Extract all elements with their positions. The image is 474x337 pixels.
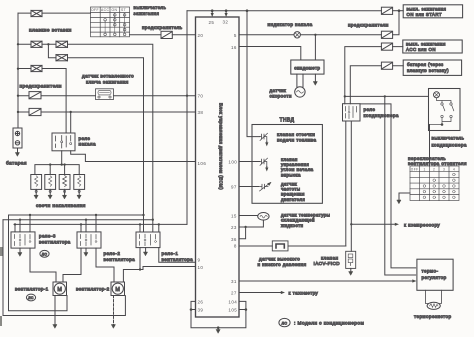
svg-text:клапан: клапан	[321, 255, 338, 260]
sensor: coolant temperature	[258, 213, 269, 221]
node: rail drop junctions relay-3	[14, 214, 31, 226]
svg-text:и низкого давления: и низкого давления	[258, 262, 307, 267]
wire: ON rail branch down to fuse FB	[393, 11, 399, 35]
valve: IACV-FICD	[346, 251, 356, 268]
wire: heater fan switch to ground	[399, 193, 410, 200]
glow plug 1	[31, 175, 42, 190]
wire: fan feed rail R3	[14, 223, 187, 225]
svg-text:вентилятора: вентилятора	[162, 257, 194, 262]
pump: TNVD injection pump box	[252, 125, 322, 204]
sensor: high/low pressure switch	[272, 241, 288, 251]
svg-text:выкл. зажигания: выкл. зажигания	[407, 6, 447, 11]
svg-text:батарея (через: батарея (через	[407, 62, 444, 67]
svg-text:16: 16	[231, 45, 237, 50]
AC mark: models with air conditioner note	[279, 318, 290, 326]
svg-text:реле: реле	[364, 107, 376, 112]
svg-text:23: 23	[231, 225, 237, 230]
svg-text:31: 31	[231, 279, 237, 284]
svg-text:100: 100	[228, 160, 237, 165]
svg-text:ЛС: ЛС	[42, 252, 48, 256]
svg-text:1: 1	[424, 167, 426, 171]
svg-text:8: 8	[234, 244, 237, 249]
motor: fan 2	[111, 282, 125, 296]
wire: ECM pin27 to tachometer	[239, 292, 281, 294]
svg-text:ЛС: ЛС	[28, 296, 34, 300]
svg-text:термо-: термо-	[422, 269, 439, 274]
wire: indicator junction down to speedometer	[314, 35, 316, 60]
svg-text:плавкую вставку): плавкую вставку)	[407, 68, 449, 73]
wire: AC relay aux row to thermo regulator	[360, 104, 416, 268]
svg-text:свечи накаливания: свечи накаливания	[36, 204, 86, 209]
wire: fan motor 2 ground (dashed)	[113, 296, 115, 325]
fuse F1	[29, 92, 41, 99]
svg-text:70: 70	[198, 94, 204, 99]
lamp: glow indicator	[294, 32, 300, 38]
wire: fuse FA to ignition box	[393, 10, 404, 12]
label: клапан управления углом начала впрыска	[281, 157, 314, 178]
node: IACV feed junction on compressor row	[350, 223, 352, 225]
label: ECM pin numbers	[198, 20, 238, 313]
svg-text:OFF: OFF	[411, 167, 419, 171]
svg-text:предохранители: предохранители	[348, 23, 389, 28]
svg-text:32: 32	[223, 20, 229, 25]
wire: ECM pin97 to rpm sensor	[239, 186, 259, 188]
svg-text:106: 106	[198, 161, 207, 166]
svg-text:Блок управления двигателем (EC: Блок управления двигателем (ECM)	[219, 103, 224, 190]
wire: ECM pin100 to timing valve	[239, 161, 260, 163]
wire: rail R2 left wrap to box bottom	[3, 220, 125, 316]
svg-text:вентилятора: вентилятора	[104, 257, 136, 262]
wire: ON-START top rail	[187, 10, 381, 12]
AC mark: circle under fan1 label	[26, 294, 35, 301]
svg-text:ON: ON	[112, 8, 118, 12]
wire: fan feed rail R1	[9, 214, 144, 216]
svg-text:спидометр: спидометр	[294, 65, 320, 70]
svg-text:зажигания: зажигания	[134, 11, 160, 16]
wire: ON riser x247 down to fuel cutoff valve	[247, 11, 260, 137]
wire: fuse FC to ACC box and down to AC relay	[345, 47, 403, 104]
node: junction fuse F2 branch	[70, 111, 72, 113]
fuse F2	[29, 108, 41, 115]
relay: fan relay 3	[11, 232, 35, 248]
box: батарея (через плавкую вставку)	[403, 60, 461, 75]
node: ground loop junctions	[190, 308, 248, 329]
wire: glow relay output to plug rail	[35, 151, 79, 175]
svg-text:реле-1: реле-1	[162, 251, 179, 256]
svg-text:подачи топлива: подачи топлива	[277, 137, 317, 142]
battery	[13, 128, 22, 148]
fusible link FL1	[31, 10, 42, 16]
svg-text:выключатель: выключатель	[134, 5, 167, 10]
svg-text:ST: ST	[121, 8, 126, 12]
svg-text:впрыска: впрыска	[281, 172, 301, 177]
wire: battery fuse to box and down to AC relay	[350, 66, 403, 104]
svg-text:ON или START: ON или START	[407, 12, 443, 17]
svg-text:27: 27	[231, 291, 237, 296]
wire: glow plug grounds	[36, 189, 79, 195]
node: pin23 junction	[244, 226, 246, 228]
glow plug 2	[45, 175, 56, 190]
valve: injection timing control	[260, 158, 269, 171]
node: rail drop junctions relay-2	[80, 214, 97, 226]
ground: fan motor 2	[112, 325, 116, 329]
svg-text:индикатор накала: индикатор накала	[268, 22, 313, 27]
AC mark: circle near relay-3	[40, 250, 49, 257]
svg-text:ACC: ACC	[101, 8, 110, 12]
wire: glow relay to ECM pin 106	[71, 151, 196, 162]
fusible link FL3	[56, 41, 68, 47]
fusible link FL2	[31, 41, 42, 47]
box: выкл. зажигания ON или START	[403, 5, 462, 18]
wire: ECM pin5 to glow indicator and fuse	[239, 34, 381, 36]
wire: speedometer ground stub	[314, 74, 316, 81]
wire: relay-3 to fan motor 1	[30, 248, 56, 282]
wire: IACV ground	[350, 268, 352, 271]
wire: ECM pin16 to speedometer	[239, 47, 301, 61]
wire: stubs into ECM pins 25 32	[212, 11, 226, 14]
sensor: ignition key-in sensor	[96, 89, 114, 100]
speedometer	[291, 60, 324, 74]
relay: fan relay 2	[77, 232, 101, 248]
svg-text:ТНВД: ТНВД	[280, 117, 295, 123]
wire: fuse F2 to ECM pin 38	[18, 111, 196, 113]
fuse: FD (battery)	[381, 62, 392, 69]
svg-text:20: 20	[198, 33, 204, 38]
wire: fan motor 1 ground	[54, 296, 56, 325]
svg-text:97: 97	[231, 185, 237, 190]
svg-text:накала: накала	[79, 142, 97, 147]
fusible link FL4	[56, 55, 68, 61]
fusible link FL5	[31, 65, 42, 71]
wire: relay-3 ground	[19, 248, 21, 252]
wire: ECM pin31 to thermo regulator	[239, 280, 412, 282]
ground: relay-3	[18, 253, 22, 257]
wire: FL1 to ignition switch	[18, 12, 91, 14]
svg-text:батарея: батарея	[6, 161, 27, 167]
wire: ON-START riser x187	[186, 11, 188, 225]
svg-text:к тахометру: к тахометру	[289, 291, 319, 296]
wire: battery to ground	[17, 148, 19, 153]
relay: fan relay 1	[136, 232, 160, 248]
scan mark left edge 1	[0, 247, 3, 256]
wire: AC relay output to pressure switch line	[345, 121, 347, 246]
svg-text:реле-2: реле-2	[104, 251, 121, 256]
wire: relay-2 ground	[85, 248, 87, 252]
wire: drops into relay-1	[140, 224, 159, 232]
wire: fan feed rail R2	[3, 219, 153, 221]
ground: IACV valve	[349, 272, 353, 276]
svg-text:ACC или ON: ACC или ON	[406, 47, 436, 52]
svg-text:предохранитель: предохранитель	[142, 25, 183, 30]
wire: drops into relay-2	[81, 215, 96, 232]
svg-text:15: 15	[231, 214, 237, 219]
ground: relay-2	[84, 253, 88, 257]
svg-text:26: 26	[198, 300, 204, 305]
motor: fan 1	[53, 282, 67, 296]
svg-text:36: 36	[231, 237, 237, 242]
sensor: engine speed (rpm) sensor	[259, 181, 273, 191]
svg-text:105: 105	[228, 308, 237, 313]
svg-text:OFF: OFF	[91, 8, 99, 12]
svg-text:2: 2	[433, 167, 435, 171]
svg-text:вентилятор-1: вентилятор-1	[15, 286, 49, 291]
svg-text:двигателя: двигателя	[281, 197, 305, 202]
wire: FL2-FL3 row to vertical x152.8	[18, 44, 153, 232]
node: bus junction y95	[17, 95, 19, 97]
wire: ECM ground loop pins 26 39 104 105	[191, 301, 246, 329]
svg-text:выкл. зажигания: выкл. зажигания	[406, 42, 446, 47]
svg-text:5: 5	[234, 33, 237, 38]
svg-text:вентилятора: вентилятора	[39, 240, 71, 245]
wire: AC relay output to IACV valve	[350, 121, 352, 251]
switch: AC switch	[429, 89, 461, 131]
svg-text:вентилятор-2: вентилятор-2	[76, 286, 110, 291]
regulator: thermo-regulator	[417, 259, 453, 290]
wire: fuse F2 branch down to glow relay	[70, 112, 72, 133]
fuse: ignition to ECM pin20	[161, 31, 172, 38]
valve: fuel cut-off solenoid	[260, 133, 269, 146]
ground: fan motor 1	[53, 325, 57, 329]
svg-text:M: M	[57, 287, 62, 293]
node: junction FL2/FL4	[47, 43, 49, 45]
svg-text:3: 3	[443, 167, 445, 171]
wire: ECM pin15 to coolant sensor	[239, 215, 258, 217]
svg-text:выключатель: выключатель	[432, 136, 465, 141]
node: plug rail junctions	[49, 163, 66, 165]
wire: AC switch to heater fan table	[429, 125, 431, 167]
ground: battery	[16, 153, 20, 157]
scan mark left edge 2	[0, 316, 2, 326]
label: датчик температуры охлаждающей жидкости	[281, 212, 330, 227]
wire: FL4 branch to vertical x143.5	[48, 44, 143, 232]
fuse: FC (ACC)	[381, 43, 392, 50]
wire: ignition switch to ECM pin 20	[130, 34, 196, 36]
ground: ECM	[216, 330, 220, 334]
svg-text:M: M	[115, 287, 120, 293]
wire: ECM pin 10 to motor 2	[143, 267, 196, 270]
node: bus junction y68	[17, 68, 19, 70]
node: bus junction y44	[17, 43, 19, 45]
node: rail drop junctions relay-1	[139, 214, 160, 226]
node: junction thermo riser	[384, 95, 386, 97]
svg-text:4: 4	[453, 167, 455, 171]
wire: drops into relay-3	[15, 215, 30, 232]
svg-text:: Модели с кондиционером: : Модели с кондиционером	[294, 321, 364, 327]
switch: ignition switch contact table	[91, 7, 130, 37]
wire: relay-2 outputs to motors	[63, 248, 114, 282]
label: датчик частоты вращения двигателя	[281, 181, 305, 202]
ground: glow plugs	[34, 195, 38, 199]
sensor: speed sensor	[295, 87, 305, 97]
fuse: FA (ON/START)	[381, 7, 392, 14]
svg-text:39: 39	[198, 308, 204, 313]
relay: air conditioner relay	[343, 104, 361, 121]
svg-text:10: 10	[198, 265, 204, 270]
wire: rail R1 left wrap	[9, 215, 68, 311]
node: bus junction y112	[17, 111, 19, 113]
thermistor	[426, 290, 442, 309]
node: rail junctions pins 25/32 and x247	[211, 9, 400, 12]
svg-text:IACV-FICD: IACV-FICD	[314, 261, 341, 266]
svg-text:реле: реле	[79, 136, 91, 141]
svg-text:вентилятора отопителя: вентилятора отопителя	[408, 161, 467, 166]
wire: relay-1 to ECM pin 9	[159, 248, 196, 263]
fuse: FB (feeds indicator line)	[381, 31, 392, 38]
svg-text:к компрессору: к компрессору	[404, 223, 440, 228]
svg-text:терморезистор: терморезистор	[414, 314, 451, 319]
node: junction key sensor / ON rail riser	[186, 95, 188, 97]
node: AC feed junction	[344, 95, 346, 97]
relay: glow plug relay	[52, 133, 75, 151]
node: junction relay-1 motor feed	[139, 268, 141, 270]
svg-text:25: 25	[209, 20, 215, 25]
svg-text:предохранители: предохранители	[20, 85, 62, 90]
svg-text:датчик вставленного: датчик вставленного	[82, 74, 134, 79]
box: выкл. зажигания ACC или ON	[403, 40, 462, 53]
glow plug 4	[74, 175, 85, 190]
wire: riser x384.8 to thermo input	[385, 96, 416, 275]
svg-text:датчик высокого: датчик высокого	[259, 257, 300, 262]
svg-text:ключа зажигания: ключа зажигания	[86, 80, 129, 85]
svg-text:кондиционера: кондиционера	[364, 113, 399, 118]
wire: relay-1 ground	[145, 248, 147, 252]
ground: relay-1	[144, 252, 148, 256]
wire: battery bus	[17, 13, 19, 128]
svg-text:38: 38	[198, 110, 204, 115]
wire: ECM pin8 pressure switch line	[239, 245, 346, 247]
svg-text:реле-3: реле-3	[39, 234, 56, 239]
svg-text:104: 104	[228, 300, 237, 305]
ground: heater switch	[397, 200, 401, 204]
svg-text:датчик: датчик	[270, 88, 287, 93]
ground: speedometer	[313, 82, 317, 86]
svg-text:ЛС: ЛС	[282, 321, 288, 325]
svg-text:9: 9	[198, 257, 201, 262]
svg-text:регулятор: регулятор	[422, 275, 447, 280]
wire: FL5 to glow relay	[18, 69, 66, 134]
node: indicator line junction	[314, 34, 316, 36]
wire: ECM pin23/36 to coolant sensor return	[239, 220, 263, 239]
glow plug 3	[59, 175, 70, 190]
wire: fuse F1 to key sensor	[18, 95, 96, 97]
switch: heater fan switch table	[410, 166, 459, 201]
svg-text:кондиционера: кондиционера	[432, 142, 467, 147]
svg-text:плавкие вставки: плавкие вставки	[29, 29, 72, 34]
svg-text:скорости: скорости	[270, 93, 292, 98]
svg-text:клапан отсечки: клапан отсечки	[277, 132, 315, 137]
ECM: engine control module	[196, 17, 240, 317]
wire: compressor row	[351, 223, 394, 225]
wire: key sensor to ECM pin 70	[114, 95, 196, 97]
wire: AC feed row to AC switch	[345, 95, 429, 97]
svg-text:жидкости: жидкости	[281, 223, 304, 228]
wire: speedometer to speed sensor	[297, 74, 303, 87]
wire: relay-1 to motor 2	[123, 248, 143, 282]
